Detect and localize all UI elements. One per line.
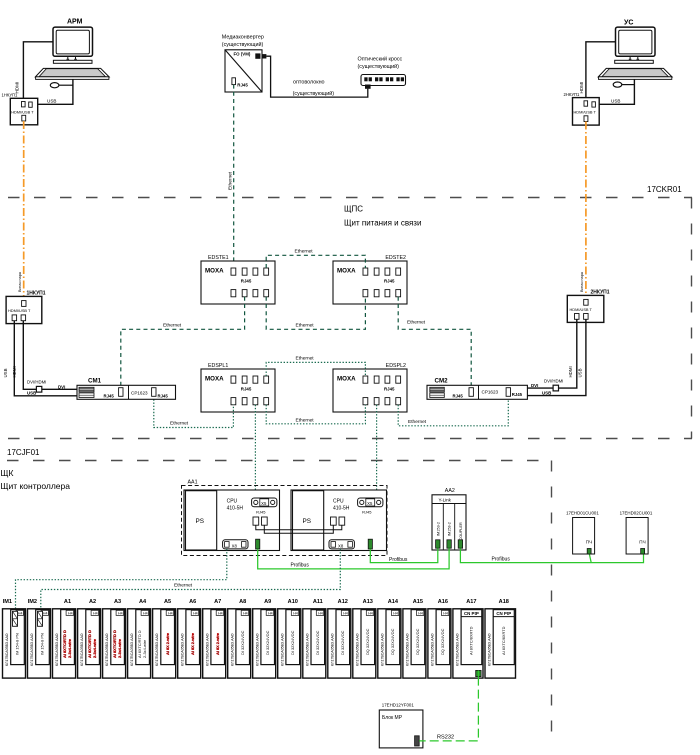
- svg-text:КЛ17ВСА05ВЗ.ААО: КЛ17ВСА05ВЗ.ААО: [180, 633, 184, 666]
- switch EDSTE2 (MOXA): [333, 255, 407, 304]
- svg-text:H4: H4: [418, 612, 423, 616]
- wire Ethernet EDSPL2 to CPU2 X5: [376, 405, 378, 499]
- svg-text:IM153-2: IM153-2: [436, 522, 440, 536]
- mouse: [613, 82, 622, 87]
- svg-text:2-3x4-wire: 2-3x4-wire: [92, 638, 97, 658]
- svg-text:A4: A4: [139, 599, 147, 605]
- svg-text:CP1623: CP1623: [482, 389, 499, 394]
- module IM1: [3, 599, 26, 678]
- controller 1: PS + CPU 410-5H: [184, 490, 280, 551]
- svg-text:A16: A16: [438, 599, 448, 605]
- module A10: [278, 599, 301, 678]
- svg-text:DQ 32X24VDC: DQ 32X24VDC: [440, 628, 445, 655]
- svg-text:Ethernet: Ethernet: [228, 171, 234, 190]
- svg-text:КЛ17ВСА05ВЗ.ААО: КЛ17ВСА05ВЗ.ААО: [130, 633, 134, 666]
- svg-text:Ethernet: Ethernet: [174, 583, 193, 589]
- svg-text:КЛ17ВСА05ВЗ.ААО: КЛ17ВСА05ВЗ.ААО: [30, 633, 34, 666]
- svg-text:HDMI/USB T: HDMI/USB T: [574, 110, 597, 115]
- svg-text:HDMI/USB T: HDMI/USB T: [570, 307, 593, 312]
- wire Ethernet CPU1 X8 to module IM1: [16, 549, 227, 610]
- svg-text:A12: A12: [338, 599, 348, 605]
- power supply PS: [293, 491, 324, 550]
- port X5: [358, 498, 383, 507]
- svg-text:HDMI/USB T: HDMI/USB T: [8, 308, 31, 313]
- wire Ethernet EDSTE1 top to EDSTE2 top: [266, 255, 365, 268]
- module A1: [53, 599, 76, 678]
- wire USB 1НКУП1 to CM1: [14, 321, 77, 396]
- switch EDSPL1 (MOXA): [201, 363, 275, 412]
- svg-text:A13: A13: [363, 599, 373, 605]
- svg-text:H4: H4: [43, 612, 48, 616]
- svg-text:USB: USB: [47, 99, 56, 104]
- svg-text:X5: X5: [261, 501, 267, 506]
- svg-text:MOXA: MOXA: [337, 376, 356, 383]
- svg-text:CPU: CPU: [333, 499, 344, 505]
- media converter (существующий): [222, 34, 267, 92]
- svg-text:USB: USB: [578, 368, 583, 377]
- svg-text:КЛ17ВСА05ВЗ.ААО: КЛ17ВСА05ВЗ.ААО: [280, 633, 284, 666]
- svg-text:Ethernet: Ethernet: [407, 320, 426, 326]
- Profibus connector: [256, 539, 260, 549]
- port RJ45: [232, 78, 236, 85]
- svg-text:A2: A2: [89, 599, 96, 605]
- svg-text:RJ45: RJ45: [237, 82, 248, 87]
- svg-text:RJ45: RJ45: [453, 393, 464, 398]
- svg-text:H4: H4: [18, 612, 23, 616]
- svg-text:ЩК: ЩК: [1, 468, 14, 478]
- svg-text:CN PtP: CN PtP: [464, 611, 479, 616]
- wire Profibus CPU2 X8 to AA2 IM153-2#1: [370, 548, 438, 562]
- svg-text:Profibus: Profibus: [492, 556, 511, 562]
- wire HDMI/DVI 2НКУП1 to CM2: [559, 319, 577, 388]
- svg-text:H4: H4: [443, 612, 448, 616]
- svg-text:КЛ17ВСА05ВЗ.ААО: КЛ17ВСА05ВЗ.ААО: [105, 633, 109, 666]
- svg-text:Ethernet: Ethernet: [408, 419, 427, 425]
- svg-text:Y-Link: Y-Link: [439, 497, 452, 502]
- svg-text:CM1: CM1: [88, 378, 102, 385]
- svg-text:17EHD01CU001: 17EHD01CU001: [566, 510, 599, 515]
- module A14: [378, 599, 401, 678]
- PC CM1 with CP1623: [77, 378, 176, 400]
- svg-text:CPU: CPU: [227, 499, 238, 505]
- port X8: [329, 540, 354, 549]
- svg-text:DQ 32X24VDC: DQ 32X24VDC: [390, 628, 395, 655]
- svg-text:AA1: AA1: [188, 480, 198, 486]
- svg-text:DVI: DVI: [531, 383, 538, 388]
- section border 17CJF01: [7, 461, 552, 743]
- svg-text:A1: A1: [64, 599, 71, 605]
- svg-text:AA2: AA2: [445, 488, 455, 494]
- wire Ethernet CPU2 X8 to module IM2: [41, 549, 341, 610]
- svg-text:17CKR01: 17CKR01: [647, 185, 682, 194]
- svg-text:RJ45: RJ45: [384, 387, 395, 392]
- svg-text:HDMI: HDMI: [568, 366, 573, 377]
- svg-text:RJ45: RJ45: [256, 510, 266, 515]
- drive box 17EHD01CU001: [566, 510, 599, 554]
- CPU sync ports: [253, 517, 259, 525]
- svg-text:КЛ17ВСА05ВЗ.ААО: КЛ17ВСА05ВЗ.ААО: [80, 633, 84, 666]
- svg-text:КЛ17ВСА05ВЗ.ААО: КЛ17ВСА05ВЗ.ААО: [406, 633, 410, 666]
- svg-text:Ethernet: Ethernet: [170, 420, 189, 426]
- svg-text:КЛ17ВСА05ВЗ.ААО: КЛ17ВСА05ВЗ.ААО: [330, 633, 334, 666]
- extender box 1НКУП1: [6, 291, 46, 324]
- Profibus connector: [368, 539, 372, 549]
- module A18: [485, 599, 516, 678]
- svg-text:DI 32X24VDC: DI 32X24VDC: [340, 630, 345, 655]
- svg-text:RJ45: RJ45: [384, 279, 395, 284]
- port IM153-2 #1: [436, 540, 440, 548]
- computer УС (right workstation): [579, 20, 672, 105]
- svg-text:H4: H4: [118, 612, 123, 616]
- svg-text:FO (VM): FO (VM): [234, 52, 251, 57]
- section border 17CKR01: [8, 198, 692, 439]
- svg-text:X8: X8: [338, 543, 344, 548]
- module A4: [128, 599, 151, 678]
- svg-text:A15: A15: [413, 599, 423, 605]
- svg-text:КЛ17ВСА05ВЗ.ААО: КЛ17ВСА05ВЗ.ААО: [55, 633, 59, 666]
- svg-text:Витая пара: Витая пара: [580, 271, 584, 292]
- svg-text:17EHD02CU001: 17EHD02CU001: [620, 510, 653, 515]
- svg-text:Ethernet: Ethernet: [296, 417, 315, 423]
- svg-text:IM2: IM2: [28, 599, 37, 605]
- svg-text:2НКУП1: 2НКУП1: [564, 92, 581, 97]
- svg-text:КЛ17ВСА05ВЗ.ААО: КЛ17ВСА05ВЗ.ААО: [155, 633, 159, 666]
- wire fiber (оптоволокно): [266, 56, 367, 97]
- svg-text:AI 8XTC/8XRTD: AI 8XTC/8XRTD: [501, 626, 506, 655]
- svg-text:КЛ17ВСА05ВЗ.ААО: КЛ17ВСА05ВЗ.ААО: [380, 633, 384, 666]
- svg-text:IM 154-8 PN: IM 154-8 PN: [40, 633, 45, 655]
- svg-text:USB: USB: [3, 368, 8, 377]
- wire twisted pair (orange, right): [585, 122, 587, 300]
- svg-text:DVI/HDMI: DVI/HDMI: [27, 380, 46, 385]
- drive box 17EHD02CU001: [620, 510, 653, 554]
- svg-text:КЛ17ВСА05ВЗ.ААО: КЛ17ВСА05ВЗ.ААО: [255, 633, 259, 666]
- wire Profibus Y-COUPLER to ПЧ boxes: [460, 548, 643, 562]
- svg-text:MOXA: MOXA: [205, 268, 224, 275]
- svg-text:ПЧ: ПЧ: [639, 540, 645, 545]
- svg-text:Витая пара: Витая пара: [18, 271, 22, 292]
- svg-text:(существующий): (существующий): [293, 90, 335, 97]
- keyboard: [36, 69, 109, 77]
- svg-text:H4: H4: [368, 612, 373, 616]
- svg-text:MOXA: MOXA: [205, 376, 224, 383]
- svg-text:USB: USB: [542, 390, 551, 395]
- svg-text:(существующий): (существующий): [358, 63, 400, 70]
- svg-text:PS: PS: [196, 518, 205, 525]
- module A12: [328, 599, 351, 678]
- port RS232 on A17: [476, 670, 481, 676]
- svg-text:CP1623: CP1623: [131, 391, 148, 396]
- svg-text:EDSPL2: EDSPL2: [386, 363, 406, 369]
- svg-text:A6: A6: [189, 599, 196, 605]
- svg-text:A8: A8: [239, 599, 246, 605]
- svg-text:X8: X8: [232, 543, 238, 548]
- svg-text:X5: X5: [367, 501, 373, 506]
- wire Ethernet CP1623(CM1) to EDSPL1 bottom: [154, 396, 234, 427]
- wire HDMI monitor: [586, 42, 616, 102]
- monitor: [616, 27, 656, 56]
- wire Ethernet EDSPL1 top to EDSPL2 top: [266, 362, 365, 376]
- svg-text:HDMI: HDMI: [579, 82, 584, 94]
- svg-text:H4: H4: [243, 612, 248, 616]
- wire Ethernet EDSPL1 bottom to EDSPL2 bottom: [266, 405, 365, 424]
- svg-text:CM2: CM2: [435, 378, 449, 385]
- svg-text:A3: A3: [114, 599, 121, 605]
- svg-text:MOXA: MOXA: [337, 268, 356, 275]
- wire Ethernet EDSTE1 bottom to EDSTE2 bottom: [266, 297, 365, 330]
- svg-text:КЛ17ВСА05ВЗ.ААО: КЛ17ВСА05ВЗ.ААО: [230, 633, 234, 666]
- svg-text:КЛ17ВСА05ВЗ.ААО: КЛ17ВСА05ВЗ.ААО: [456, 633, 460, 666]
- svg-text:H4: H4: [143, 612, 148, 616]
- svg-text:DQ 32X24VDC: DQ 32X24VDC: [415, 628, 420, 655]
- svg-text:A18: A18: [499, 599, 509, 605]
- svg-text:EDSTE2: EDSTE2: [385, 255, 406, 261]
- svg-text:DVI: DVI: [58, 384, 65, 389]
- keyboard: [599, 69, 672, 77]
- module A5: [153, 599, 176, 678]
- svg-text:ЩПС: ЩПС: [344, 205, 363, 214]
- module A15: [403, 599, 426, 678]
- svg-text:КЛ17ВСА05ВЗ.ААО: КЛ17ВСА05ВЗ.ААО: [5, 633, 9, 666]
- svg-text:AI 8X 2-wire: AI 8X 2-wire: [165, 632, 170, 655]
- fiber connector: [255, 53, 260, 58]
- CPU sync ports: [331, 517, 337, 525]
- wire USB keyboard/mouse: [596, 79, 635, 104]
- svg-text:Ethernet: Ethernet: [295, 248, 314, 254]
- svg-text:Блок МР: Блок МР: [382, 715, 403, 721]
- wire Ethernet EDSPL2 bottom to CP1623(CM2): [398, 396, 508, 426]
- module A7: [203, 599, 226, 678]
- extender box HDMI/USB (top left): [2, 93, 38, 125]
- svg-text:1НКУП1: 1НКУП1: [2, 93, 19, 98]
- wire CPU sync crossover: [256, 525, 342, 533]
- wire USB keyboard/mouse: [32, 79, 73, 104]
- svg-text:CN PtP: CN PtP: [496, 611, 511, 616]
- svg-text:DI 32X24VDC: DI 32X24VDC: [290, 630, 295, 655]
- module A13: [353, 599, 376, 678]
- svg-text:DI 32X24VDC: DI 32X24VDC: [315, 630, 320, 655]
- svg-text:410-5H: 410-5H: [333, 505, 350, 511]
- svg-text:H4: H4: [93, 612, 98, 616]
- svg-text:A9: A9: [264, 599, 271, 605]
- svg-text:AI 8X 2-wire: AI 8X 2-wire: [215, 632, 220, 655]
- mouse: [50, 83, 59, 88]
- extender box HDMI/USB (top right): [564, 92, 600, 125]
- svg-text:EDSTE1: EDSTE1: [208, 255, 229, 261]
- module A6: [178, 599, 201, 678]
- svg-text:Медиаконвертер: Медиаконвертер: [222, 34, 264, 40]
- module A9: [253, 599, 276, 678]
- monitor: [53, 27, 93, 56]
- switch EDSPL2 (MOXA): [333, 363, 407, 412]
- svg-text:Ethernet: Ethernet: [163, 322, 182, 328]
- svg-text:H4: H4: [318, 612, 323, 616]
- wire Ethernet EDSTE1 bottom to CM1: [121, 297, 245, 388]
- svg-text:HDMI: HDMI: [12, 366, 17, 377]
- box 17EHD12YF001 (Блок МР): [379, 703, 423, 748]
- port X5: [252, 498, 277, 507]
- svg-text:Profibus: Profibus: [291, 562, 310, 568]
- svg-text:DI 32X24VDC: DI 32X24VDC: [240, 630, 245, 655]
- svg-text:H4: H4: [393, 612, 398, 616]
- svg-text:AI 8XTC/8XRTD: AI 8XTC/8XRTD: [469, 626, 474, 655]
- svg-text:ПЧ: ПЧ: [586, 540, 592, 545]
- svg-text:H4: H4: [293, 612, 298, 616]
- svg-text:17CJF01: 17CJF01: [7, 448, 40, 457]
- wire HDMI/DVI 1НКУП1 to CM1: [23, 321, 36, 390]
- svg-text:H4: H4: [343, 612, 348, 616]
- module A17: [453, 599, 483, 678]
- svg-text:A14: A14: [388, 599, 399, 605]
- port X8: [223, 540, 248, 549]
- wire USB 2НКУП1 to CM2: [527, 319, 586, 395]
- wire twisted pair (orange, left): [23, 121, 25, 301]
- svg-text:КЛ17ВСА05ВЗ.ААО: КЛ17ВСА05ВЗ.ААО: [488, 633, 492, 666]
- svg-text:AI 8X 2-wire: AI 8X 2-wire: [190, 632, 195, 655]
- svg-text:A7: A7: [214, 599, 221, 605]
- wire HDMI monitor: [23, 42, 53, 102]
- svg-text:IM 154-8 PN: IM 154-8 PN: [15, 633, 20, 655]
- svg-text:H4: H4: [68, 612, 73, 616]
- module A3: [103, 599, 126, 678]
- svg-text:Ethernet: Ethernet: [296, 322, 315, 328]
- svg-text:КЛ17ВСА05ВЗ.ААО: КЛ17ВСА05ВЗ.ААО: [205, 633, 209, 666]
- svg-text:АРМ: АРМ: [67, 19, 83, 26]
- svg-text:H4: H4: [268, 612, 273, 616]
- port IM153-2 #2: [447, 540, 451, 548]
- module A2: [78, 599, 101, 678]
- svg-text:IM153-2: IM153-2: [448, 522, 452, 536]
- svg-text:УС: УС: [624, 20, 633, 27]
- extender box 2НКУП1: [567, 290, 609, 323]
- svg-text:A17: A17: [466, 599, 476, 605]
- svg-text:(существующий): (существующий): [222, 41, 264, 48]
- optical cross (существующий): [358, 56, 406, 89]
- svg-text:КЛ17ВСА05ВЗ.ААО: КЛ17ВСА05ВЗ.ААО: [355, 633, 359, 666]
- svg-text:Оптический кросс: Оптический кросс: [358, 56, 403, 63]
- svg-text:DVI/HDMI: DVI/HDMI: [544, 378, 563, 383]
- svg-text:RS232: RS232: [437, 734, 454, 740]
- wire Profibus CPU1 X8 to AA2 IM153-2#2: [258, 548, 449, 569]
- svg-text:RJ45: RJ45: [512, 392, 523, 397]
- svg-text:Щит питания и связи: Щит питания и связи: [344, 219, 421, 228]
- svg-text:H4: H4: [218, 612, 223, 616]
- computer АРМ (left workstation): [15, 19, 109, 105]
- svg-text:A10: A10: [288, 599, 298, 605]
- svg-text:2-3x4-wire: 2-3x4-wire: [67, 638, 72, 658]
- svg-text:DQ 32X24VDC: DQ 32X24VDC: [365, 628, 370, 655]
- svg-text:USB: USB: [611, 99, 620, 104]
- svg-text:КЛ17ВСА05ВЗ.ААО: КЛ17ВСА05ВЗ.ААО: [431, 633, 435, 666]
- svg-text:H4: H4: [193, 612, 198, 616]
- port Y-COUPLER: [458, 540, 462, 548]
- wire Ethernet EDSPL1 to CPU1 X5: [254, 405, 256, 499]
- svg-text:HDMI/USB T: HDMI/USB T: [11, 110, 34, 115]
- svg-text:Profibus: Profibus: [389, 557, 408, 563]
- power supply PS: [186, 491, 217, 550]
- svg-text:DI 32X24VDC: DI 32X24VDC: [265, 630, 270, 655]
- wire RS232 A17 to Блок МР: [419, 677, 478, 741]
- svg-text:H4: H4: [168, 612, 173, 616]
- svg-text:17EHD12YF001: 17EHD12YF001: [382, 703, 415, 708]
- svg-text:Ethernet: Ethernet: [296, 356, 315, 362]
- svg-text:EDSPL1: EDSPL1: [208, 363, 228, 369]
- svg-text:PS: PS: [303, 518, 312, 525]
- module A11: [303, 599, 326, 678]
- svg-text:410-5H: 410-5H: [227, 505, 244, 511]
- wire Ethernet EDSTE2 bottom to CM2: [398, 297, 471, 388]
- svg-text:IM1: IM1: [3, 599, 12, 605]
- module A8: [228, 599, 251, 678]
- module A16: [428, 599, 451, 678]
- controller 2: PS + CPU 410-5H: [291, 490, 387, 551]
- svg-text:RJ45: RJ45: [362, 510, 372, 515]
- svg-text:RJ45: RJ45: [158, 393, 169, 398]
- svg-text:2-3x4-wire: 2-3x4-wire: [142, 640, 147, 658]
- svg-text:Щит контроллера: Щит контроллера: [1, 481, 71, 491]
- PC CM2 with CP1623: [427, 378, 527, 400]
- svg-text:КЛ17ВСА05ВЗ.ААО: КЛ17ВСА05ВЗ.ААО: [305, 633, 309, 666]
- switch EDSTE1 (MOXA): [201, 255, 275, 304]
- svg-text:оптоволокно: оптоволокно: [293, 79, 325, 85]
- svg-text:2-3x4-wire: 2-3x4-wire: [117, 638, 122, 658]
- module IM2: [28, 599, 51, 678]
- svg-text:USB: USB: [27, 391, 36, 396]
- svg-text:RJ45: RJ45: [241, 387, 252, 392]
- svg-text:A11: A11: [313, 599, 323, 605]
- svg-text:RJ45: RJ45: [241, 279, 252, 284]
- wire Ethernet media converter to EDSTE1: [233, 85, 235, 268]
- svg-text:RJ45: RJ45: [104, 393, 115, 398]
- svg-text:A5: A5: [164, 599, 171, 605]
